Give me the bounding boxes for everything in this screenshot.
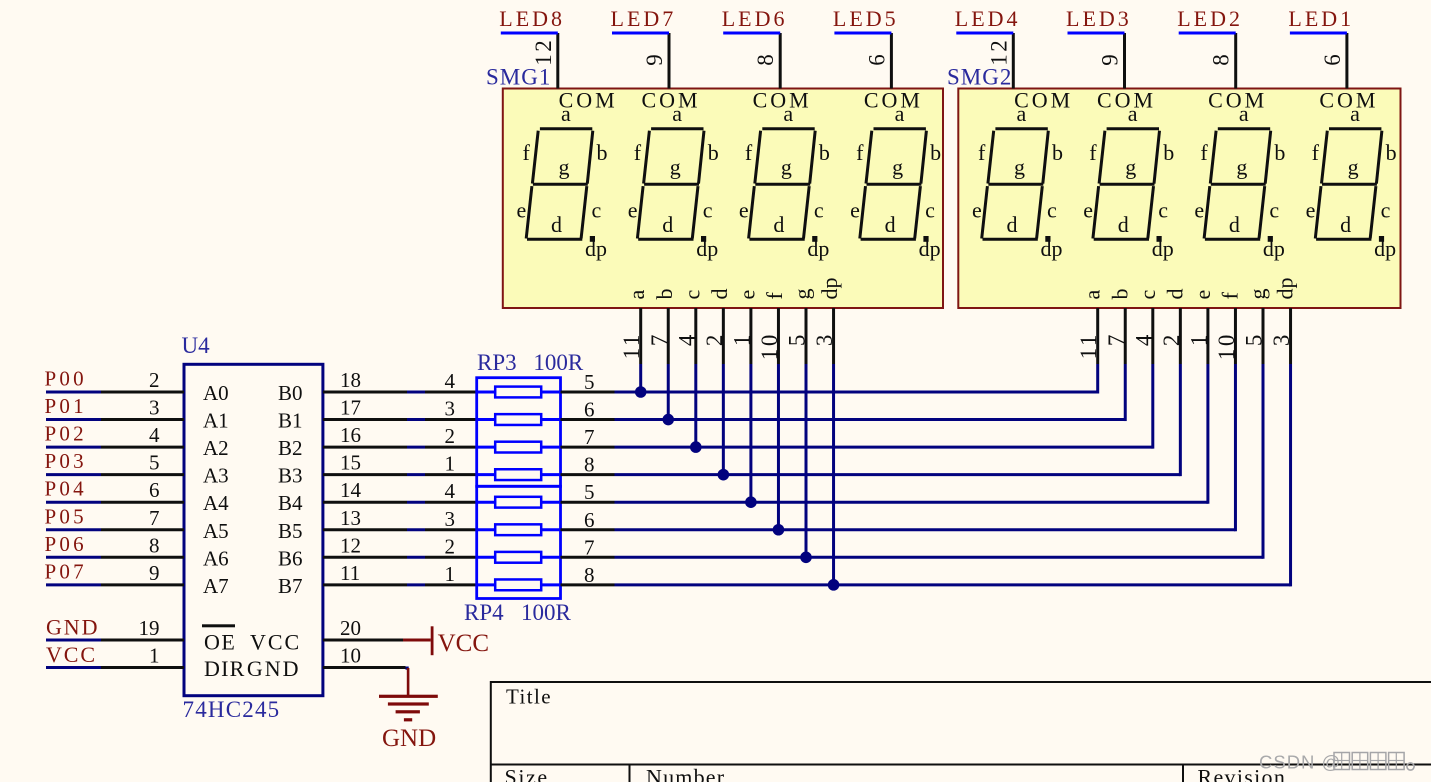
svg-text:f: f — [1089, 140, 1097, 165]
wire segment-e net — [615, 501, 1208, 504]
svg-text:1: 1 — [1186, 332, 1211, 346]
svg-text:B4: B4 — [278, 491, 303, 515]
svg-text:d: d — [1340, 212, 1351, 237]
svg-text:f: f — [1200, 140, 1208, 165]
U4 pin 4 (A2) — [101, 446, 184, 449]
U4 pin 3 (A1) — [101, 418, 184, 421]
svg-text:dp: dp — [919, 236, 941, 261]
svg-text:RP3: RP3 — [477, 350, 517, 375]
svg-text:dp: dp — [817, 278, 842, 300]
svg-text:19: 19 — [139, 616, 160, 640]
resistor RP3.3 — [477, 446, 496, 449]
svg-text:f: f — [1217, 292, 1242, 300]
svg-text:10: 10 — [1214, 332, 1239, 360]
SMG2 pin 10 (segment f) — [1234, 308, 1237, 364]
svg-text:a: a — [624, 290, 649, 300]
svg-text:VCC: VCC — [438, 630, 489, 657]
SMG1 pin 7 (segment b) — [667, 308, 670, 364]
U4 pin 1 (DIR) — [101, 666, 184, 669]
wire — [46, 446, 101, 449]
svg-text:c: c — [814, 198, 824, 223]
svg-text:1: 1 — [445, 562, 456, 586]
svg-text:B0: B0 — [278, 381, 303, 405]
wire — [1179, 32, 1236, 35]
op-amp U4 74HC245 IC body — [184, 364, 323, 695]
svg-text:d: d — [707, 289, 732, 300]
junction — [773, 524, 785, 536]
svg-text:d: d — [1229, 212, 1240, 237]
U4 pin 9 (A7) — [101, 583, 184, 586]
svg-text:dp: dp — [696, 236, 718, 261]
wire — [46, 473, 101, 476]
SMG1 pin 1 (segment e) — [749, 308, 752, 364]
svg-text:c: c — [679, 290, 704, 300]
svg-text:5: 5 — [149, 451, 160, 475]
svg-text:4: 4 — [674, 332, 699, 346]
SMG1 COM pin 8 — [779, 33, 782, 89]
svg-text:5: 5 — [584, 370, 595, 394]
svg-text:A7: A7 — [203, 574, 229, 598]
svg-text:4: 4 — [1131, 332, 1156, 346]
svg-text:LED8: LED8 — [499, 6, 565, 31]
U4 pin 18 (B0) — [323, 391, 407, 394]
RP3 pin 6 — [561, 418, 615, 421]
U4 pin 15 (B3) — [323, 473, 407, 476]
svg-text:VCC: VCC — [46, 642, 97, 667]
wire — [407, 418, 425, 421]
wire — [1290, 32, 1347, 35]
svg-text:U4: U4 — [182, 333, 211, 358]
svg-text:b: b — [597, 140, 608, 165]
wire — [407, 473, 425, 476]
svg-text:f: f — [745, 140, 753, 165]
resistor RP3.4 — [477, 473, 496, 476]
wire segment-a net — [615, 391, 1098, 394]
wire — [46, 583, 101, 586]
svg-text:c: c — [1158, 198, 1168, 223]
svg-text:COM: COM — [1208, 88, 1267, 113]
svg-text:2: 2 — [149, 368, 160, 392]
svg-text:g: g — [790, 289, 815, 300]
wire — [46, 556, 101, 559]
RP3 pin 5 — [561, 391, 615, 394]
svg-text:SMG2: SMG2 — [947, 65, 1012, 90]
svg-text:6: 6 — [584, 508, 595, 532]
svg-text:COM: COM — [641, 88, 700, 113]
7-segment display module SMG2 — [958, 88, 1400, 309]
svg-text:e: e — [739, 198, 749, 223]
wire segment-dp net — [615, 583, 1291, 586]
svg-text:2: 2 — [445, 424, 456, 448]
wire — [46, 418, 101, 421]
RP pin 3 — [425, 418, 477, 421]
svg-text:RP4: RP4 — [464, 600, 504, 625]
svg-text:B2: B2 — [278, 436, 303, 460]
wire — [612, 32, 669, 35]
svg-text:LED7: LED7 — [611, 6, 677, 31]
RP pin 3 — [425, 528, 477, 531]
svg-text:9: 9 — [642, 52, 667, 66]
svg-text:7: 7 — [149, 506, 160, 530]
svg-text:5: 5 — [1242, 332, 1267, 346]
svg-text:3: 3 — [445, 397, 456, 421]
svg-text:c: c — [1269, 198, 1279, 223]
SMG1 pin 10 (segment f) — [777, 308, 780, 364]
svg-text:d: d — [885, 212, 896, 237]
svg-text:f: f — [634, 140, 642, 165]
svg-text:e: e — [1306, 198, 1316, 223]
svg-text:P00: P00 — [45, 367, 87, 391]
junction — [690, 441, 702, 453]
RP pin 2 — [425, 556, 477, 559]
wire corner — [406, 667, 409, 670]
svg-text:A3: A3 — [203, 464, 229, 488]
svg-text:GND: GND — [382, 725, 436, 752]
svg-text:dp: dp — [1263, 236, 1285, 261]
svg-text:c: c — [1135, 290, 1160, 300]
svg-text:dp: dp — [1374, 236, 1396, 261]
SMG1 pin 3 (segment dp) — [832, 308, 835, 364]
svg-text:COM: COM — [864, 88, 923, 113]
svg-text:1: 1 — [445, 452, 456, 476]
SMG1 pin 11 (segment a) — [639, 308, 642, 364]
svg-text:dp: dp — [807, 236, 829, 261]
svg-text:A6: A6 — [203, 546, 229, 570]
wire — [46, 638, 101, 641]
svg-text:e: e — [850, 198, 860, 223]
U4 pin 17 (B1) — [323, 418, 407, 421]
svg-text:d: d — [662, 212, 673, 237]
svg-text:P07: P07 — [45, 559, 87, 583]
svg-text:18: 18 — [340, 368, 361, 392]
svg-text:COM: COM — [753, 88, 812, 113]
svg-text:e: e — [1194, 198, 1204, 223]
svg-text:13: 13 — [340, 506, 361, 530]
svg-text:d: d — [773, 212, 784, 237]
svg-text:9: 9 — [1098, 52, 1123, 66]
svg-text:e: e — [628, 198, 638, 223]
svg-text:e: e — [972, 198, 982, 223]
U4 pin 13 (B5) — [323, 528, 407, 531]
U4 pin 14 (B4) — [323, 501, 407, 504]
svg-text:7: 7 — [584, 535, 595, 559]
svg-text:74HC245: 74HC245 — [183, 697, 281, 722]
svg-text:g: g — [1014, 155, 1025, 180]
RP pin 1 — [425, 583, 477, 586]
svg-text:COM: COM — [559, 88, 618, 113]
svg-text:11: 11 — [340, 561, 360, 585]
svg-text:VCC: VCC — [250, 630, 301, 655]
wire — [407, 528, 425, 531]
power VCC symbol — [403, 626, 489, 657]
svg-text:B1: B1 — [278, 409, 303, 433]
svg-text:f: f — [762, 292, 787, 300]
svg-text:A2: A2 — [203, 436, 229, 460]
svg-text:A1: A1 — [203, 409, 229, 433]
svg-text:e: e — [1190, 290, 1215, 300]
svg-text:g: g — [1125, 155, 1136, 180]
U4 pin 2 (A0) — [101, 391, 184, 394]
svg-text:b: b — [819, 140, 830, 165]
svg-text:g: g — [1348, 155, 1359, 180]
svg-text:Number: Number — [646, 765, 725, 782]
svg-text:f: f — [856, 140, 864, 165]
RP pin 2 — [425, 446, 477, 449]
SMG2 pin 4 (segment c) — [1151, 308, 1154, 364]
svg-text:P04: P04 — [45, 477, 87, 501]
svg-text:6: 6 — [864, 52, 889, 66]
svg-text:P01: P01 — [45, 394, 87, 418]
svg-text:7: 7 — [647, 332, 672, 346]
svg-text:5: 5 — [785, 332, 810, 346]
wire — [407, 583, 425, 586]
svg-text:f: f — [523, 140, 531, 165]
svg-text:5: 5 — [584, 480, 595, 504]
SMG1 COM pin 6 — [890, 33, 893, 89]
svg-text:4: 4 — [445, 369, 456, 393]
svg-text:A5: A5 — [203, 519, 229, 543]
SMG2 COM pin 8 — [1234, 33, 1237, 89]
svg-text:17: 17 — [340, 396, 361, 420]
svg-text:e: e — [734, 290, 759, 300]
svg-text:LED1: LED1 — [1288, 6, 1354, 31]
wire — [407, 446, 425, 449]
svg-text:7: 7 — [584, 425, 595, 449]
svg-text:Size: Size — [505, 765, 549, 782]
U4 pin names — [202, 381, 303, 681]
resistor RP3.1 — [477, 391, 496, 394]
RP pin 4 — [425, 391, 477, 394]
svg-text:3: 3 — [149, 396, 160, 420]
svg-text:c: c — [592, 198, 602, 223]
svg-text:b: b — [708, 140, 719, 165]
wire segment-f net — [615, 528, 1236, 531]
svg-text:B7: B7 — [278, 574, 303, 598]
svg-text:3: 3 — [1269, 332, 1294, 346]
svg-text:LED2: LED2 — [1177, 6, 1243, 31]
svg-text:d: d — [1162, 289, 1187, 300]
svg-text:b: b — [1052, 140, 1063, 165]
svg-text:dp: dp — [1041, 236, 1063, 261]
wire — [46, 528, 101, 531]
wire — [501, 32, 558, 35]
RP pin 1 — [425, 473, 477, 476]
svg-text:3: 3 — [812, 332, 837, 346]
svg-text:B3: B3 — [278, 464, 303, 488]
svg-text:2: 2 — [445, 534, 456, 558]
svg-text:DIR: DIR — [204, 656, 246, 681]
svg-text:P02: P02 — [45, 422, 87, 446]
svg-text:12: 12 — [986, 38, 1011, 66]
svg-text:6: 6 — [149, 478, 160, 502]
SMG1 pin 4 (segment c) — [694, 308, 697, 364]
SMG1 pin 5 (segment g) — [805, 308, 808, 364]
title block — [491, 681, 1431, 782]
svg-text:A4: A4 — [203, 491, 229, 515]
SMG2 pin 2 (segment d) — [1179, 308, 1182, 364]
svg-text:g: g — [670, 155, 681, 180]
SMG2 COM pin 9 — [1123, 33, 1126, 89]
svg-text:LED6: LED6 — [722, 6, 788, 31]
svg-text:11: 11 — [619, 332, 644, 359]
svg-text:LED4: LED4 — [955, 6, 1021, 31]
svg-text:b: b — [1107, 289, 1132, 300]
SMG2 pin 1 (segment e) — [1206, 308, 1209, 364]
svg-text:14: 14 — [340, 478, 362, 502]
svg-text:P06: P06 — [45, 532, 87, 556]
svg-text:b: b — [1274, 140, 1285, 165]
U4 pin 19 (OE) — [101, 638, 184, 641]
svg-text:10: 10 — [757, 332, 782, 360]
svg-text:A0: A0 — [203, 381, 229, 405]
svg-text:d: d — [1118, 212, 1129, 237]
svg-text:e: e — [517, 198, 527, 223]
svg-text:2: 2 — [1159, 332, 1184, 346]
junction — [635, 386, 647, 398]
svg-text:b: b — [652, 289, 677, 300]
svg-text:20: 20 — [340, 616, 361, 640]
svg-text:1: 1 — [729, 332, 754, 346]
svg-text:g: g — [1245, 289, 1270, 300]
svg-text:g: g — [781, 155, 792, 180]
RP4 pin 8 — [561, 583, 615, 586]
resistor RP3.2 — [477, 418, 496, 421]
svg-text:11: 11 — [1076, 332, 1101, 359]
svg-text:12: 12 — [531, 38, 556, 66]
svg-text:6: 6 — [1320, 52, 1345, 66]
svg-text:c: c — [1047, 198, 1057, 223]
wire segment-c net — [615, 446, 1153, 449]
U4 pin 20 (VCC) — [323, 638, 403, 641]
wire — [723, 32, 780, 35]
U4 pin 11 (B7) — [323, 583, 407, 586]
resistor RP4.2 — [477, 528, 496, 531]
wire — [407, 391, 425, 394]
resistor network RP4 body — [477, 486, 561, 598]
svg-text:8: 8 — [753, 52, 778, 66]
resistor RP4.3 — [477, 556, 496, 559]
junction — [718, 469, 730, 481]
svg-text:B6: B6 — [278, 546, 303, 570]
U4 pin 12 (B6) — [323, 556, 407, 559]
svg-text:3: 3 — [445, 507, 456, 531]
svg-text:P03: P03 — [45, 449, 87, 473]
svg-text:100R: 100R — [533, 350, 584, 375]
svg-text:d: d — [1007, 212, 1018, 237]
junction — [745, 496, 757, 508]
resistor RP4.4 — [477, 583, 496, 586]
7-segment display module SMG1 — [503, 88, 943, 309]
U4 pin 10 (GND) — [323, 666, 406, 669]
svg-text:dp: dp — [1273, 278, 1298, 300]
svg-text:2: 2 — [702, 332, 727, 346]
svg-text:b: b — [1386, 140, 1397, 165]
svg-text:g: g — [559, 155, 570, 180]
SMG2 COM pin 6 — [1345, 33, 1348, 89]
svg-text:dp: dp — [585, 236, 607, 261]
svg-text:P05: P05 — [45, 504, 87, 528]
U4 pin 8 (A6) — [101, 556, 184, 559]
SMG2 COM pin 12 — [1012, 33, 1015, 89]
U4 pin 16 (B2) — [323, 446, 407, 449]
svg-text:GND: GND — [247, 656, 301, 681]
svg-text:8: 8 — [584, 563, 595, 587]
svg-text:8: 8 — [584, 453, 595, 477]
svg-text:LED5: LED5 — [833, 6, 899, 31]
svg-text:f: f — [978, 140, 986, 165]
svg-text:g: g — [1236, 155, 1247, 180]
svg-text:b: b — [1163, 140, 1174, 165]
wire — [956, 32, 1013, 35]
wire — [46, 391, 101, 394]
svg-text:dp: dp — [1152, 236, 1174, 261]
svg-text:f: f — [1312, 140, 1320, 165]
U4 pin 5 (A3) — [101, 473, 184, 476]
wire — [834, 32, 891, 35]
U4 pin 6 (A4) — [101, 501, 184, 504]
wire — [46, 501, 101, 504]
svg-text:COM: COM — [1319, 88, 1378, 113]
RP pin 4 — [425, 501, 477, 504]
junction — [800, 552, 812, 564]
wire segment-b net — [615, 418, 1126, 421]
wire — [46, 666, 101, 669]
svg-text:COM: COM — [1014, 88, 1073, 113]
resistor RP4.1 — [477, 501, 496, 504]
svg-text:c: c — [925, 198, 935, 223]
junction — [662, 414, 674, 426]
svg-text:8: 8 — [1209, 52, 1234, 66]
SMG1 COM pin 12 — [556, 33, 559, 89]
svg-text:16: 16 — [340, 423, 361, 447]
SMG2 pin 5 (segment g) — [1262, 308, 1265, 364]
svg-text:B5: B5 — [278, 519, 303, 543]
RP4 pin 5 — [561, 501, 615, 504]
svg-text:SMG1: SMG1 — [486, 65, 551, 90]
SMG2 pin 11 (segment a) — [1096, 308, 1099, 364]
wire — [407, 556, 425, 559]
svg-text:12: 12 — [340, 533, 361, 557]
SMG2 pin 3 (segment dp) — [1289, 308, 1292, 364]
svg-text:e: e — [1083, 198, 1093, 223]
svg-text:c: c — [703, 198, 713, 223]
RP4 pin 6 — [561, 528, 615, 531]
wire segment-g net — [615, 556, 1264, 559]
svg-text:6: 6 — [584, 398, 595, 422]
svg-text:9: 9 — [149, 561, 160, 585]
svg-text:GND: GND — [46, 614, 99, 639]
ground GND symbol — [379, 668, 438, 752]
junction — [828, 579, 840, 591]
SMG2 pin 7 (segment b) — [1124, 308, 1127, 364]
svg-text:4: 4 — [445, 479, 456, 503]
watermark CSDN — [1259, 752, 1414, 773]
svg-text:g: g — [892, 155, 903, 180]
wire segment-d net — [615, 473, 1181, 476]
svg-text:10: 10 — [340, 644, 361, 668]
RP4 pin 7 — [561, 556, 615, 559]
svg-text:c: c — [1381, 198, 1391, 223]
svg-text:1: 1 — [149, 644, 160, 668]
U4 pin 7 (A5) — [101, 528, 184, 531]
RP3 pin 7 — [561, 446, 615, 449]
svg-text:CSDN @: CSDN @ — [1259, 752, 1341, 773]
svg-text:OE: OE — [204, 630, 236, 655]
wire — [1068, 32, 1125, 35]
svg-text:15: 15 — [340, 451, 361, 475]
svg-text:b: b — [930, 140, 941, 165]
wire — [407, 501, 425, 504]
